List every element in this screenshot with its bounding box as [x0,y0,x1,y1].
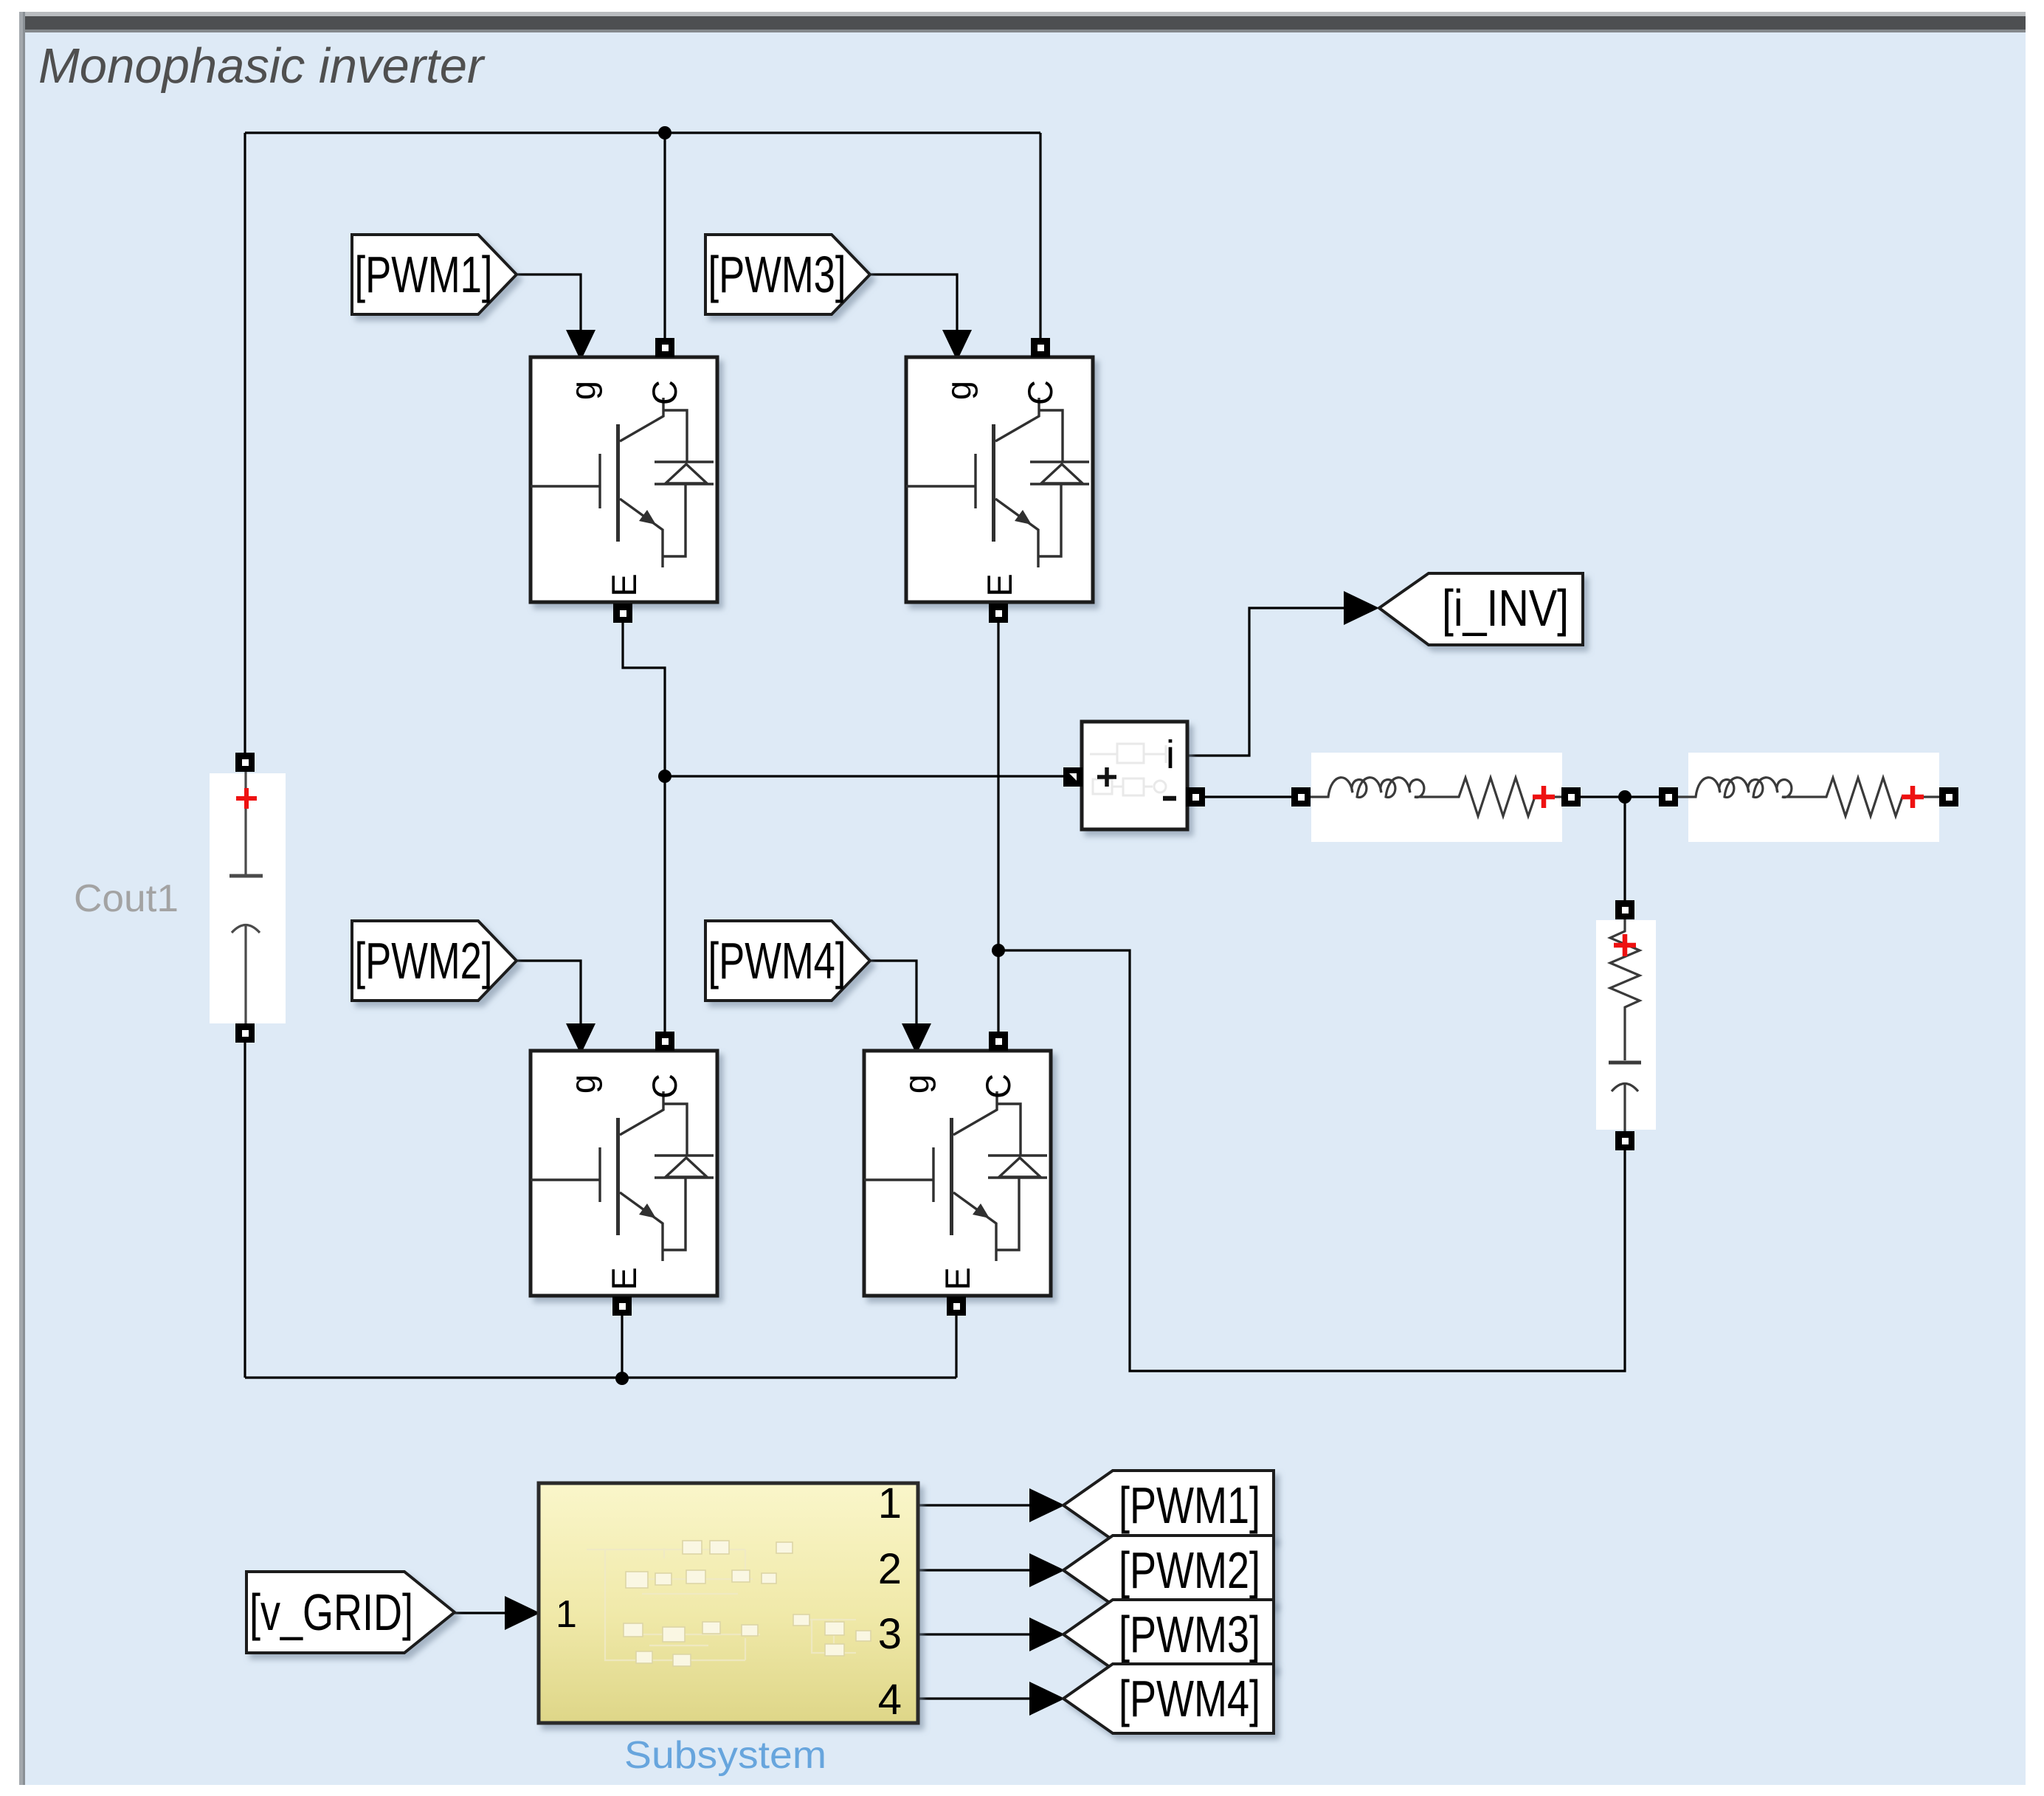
wire IGBT3 collector drop [1039,133,1041,339]
wire Cout1 bottom to bottom rail A [244,1041,246,1378]
wire IGBT2 emitter drop [621,1314,623,1378]
wire PWM1 gate [517,274,581,336]
wire Subsystem out3 [919,1633,1032,1635]
wire mid node to current sensor + [665,775,1065,777]
svg-text:Monophasic inverter: Monophasic inverter [38,38,486,94]
svg-text:[PWM2]: [PWM2] [355,932,493,989]
arrowhead into PWM2 goto [1029,1553,1065,1587]
Goto tag [PWM3] [1063,1600,1274,1669]
arrowhead into IGBT2 gate [566,1023,595,1054]
port RL1 right [1561,787,1581,807]
junction node RL1 / RL2 / RC branch [1618,790,1632,804]
wire current sensor - to RL1 [1205,795,1293,798]
port IGBT3 C [1031,338,1050,357]
Goto tag [PWM4] [1063,1664,1274,1733]
port Cout1 + [235,753,255,772]
port RL2 right [1939,787,1958,807]
wire Subsystem out1 [919,1504,1032,1506]
Goto tag [PWM1] [1063,1471,1274,1540]
svg-text:[PWM3]: [PWM3] [1119,1606,1260,1663]
arrowhead into i_INV tag [1344,591,1379,625]
port IGBT1 E [613,604,632,623]
svg-text:1: 1 [556,1593,577,1636]
wire IGBT4 emitter drop [955,1314,957,1378]
arrowhead into IGBT1 gate [566,330,595,361]
arrowhead into IGBT3 gate [942,330,972,361]
Goto tag [PWM2] [1063,1536,1274,1605]
RL branch 2 background strip [1688,753,1939,842]
arrowhead into PWM1 goto [1029,1488,1065,1522]
port IGBT4 E [947,1296,966,1316]
svg-text:[PWM1]: [PWM1] [1119,1476,1260,1534]
wire IGBT1 collector drop [663,133,666,339]
port IGBT3 E [989,604,1008,623]
svg-text:4: 4 [878,1676,902,1724]
wire bottom rail A [245,1376,956,1378]
series RL branch 1 (inductor + resistor) [1311,778,1563,816]
wire top DC+ rail [245,131,1040,134]
arrowhead into PWM4 goto [1029,1682,1065,1716]
svg-text:Subsystem: Subsystem [624,1734,826,1777]
series RL branch 2 (inductor + resistor) [1678,778,1939,816]
From tag [PWM4] [705,921,870,1001]
wire IGBT1 emitter to mid node [623,623,665,776]
current measurement block (i sensor) [1082,722,1187,829]
Subsystem block [539,1483,918,1723]
svg-text:1: 1 [878,1479,902,1527]
IGBT block IGBT1 (top-left) [531,357,717,602]
junction node top rail / IGBT1 C [658,126,671,139]
port IGBT2 C [655,1032,674,1051]
IGBT block IGBT4 (bottom-right) [864,1051,1051,1296]
svg-text:i: i [1166,733,1175,777]
port current sensor + [1063,767,1083,787]
port RC top [1615,900,1634,919]
svg-text:[PWM3]: [PWM3] [708,246,846,303]
capacitor Cout1 symbol [229,772,263,1025]
port Cout1 - [235,1023,255,1043]
port IGBT2 E [612,1296,632,1316]
port IGBT1 C [655,338,674,357]
svg-text:[i_INV]: [i_INV] [1442,579,1569,637]
current sensor - terminal label [1163,796,1176,801]
From tag [PWM3] [705,235,870,314]
wire PWM3 gate [871,274,957,336]
wire mid node down to IGBT2 collector [663,776,666,1033]
area title bar [19,12,2026,16]
wire PWM4 gate [871,961,916,1029]
From tag [v_GRID] [246,1572,455,1653]
junction node bottom rail A / IGBT2 E [615,1372,629,1385]
arrowhead into IGBT4 gate [902,1023,931,1054]
wire current sensor i output to i_INV [1187,608,1344,756]
svg-text:[PWM2]: [PWM2] [1119,1541,1260,1599]
junction node IGBT1 E / IGBT2 C mid [658,770,671,783]
svg-text:[v_GRID]: [v_GRID] [249,1583,413,1641]
port IGBT4 C [989,1032,1008,1051]
port RL2 left [1659,787,1678,807]
wire left DC+ vertical to Cout1 [244,133,246,753]
From tag [PWM1] [352,235,517,314]
port current sensor - [1186,787,1205,807]
port RC bottom [1615,1131,1634,1150]
wire PWM2 gate [517,961,581,1029]
IGBT block IGBT3 (top-right) [906,357,1093,602]
RL branch 1 background strip [1311,753,1562,842]
wire branch node down to RC top [1623,797,1626,902]
svg-text:Cout1: Cout1 [74,877,179,920]
junction node IGBT3 E / IGBT4 C mid [992,944,1005,957]
wire v_GRID to Subsystem [455,1612,508,1614]
svg-text:[PWM4]: [PWM4] [1119,1670,1260,1727]
wire Subsystem out2 [919,1569,1032,1571]
Goto tag [i_INV] [1379,573,1583,645]
series RC branch (vertical resistor + capacitor) [1609,919,1641,1131]
svg-text:3: 3 [878,1610,902,1658]
RC branch background strip [1596,920,1656,1130]
capacitor Cout1 background strip [210,773,286,1023]
svg-text:[PWM1]: [PWM1] [355,246,493,303]
svg-text:2: 2 [878,1545,902,1593]
From tag [PWM2] [352,921,517,1001]
wire Subsystem out4 [919,1697,1032,1699]
current sensor + terminal label [1097,767,1116,787]
IGBT block IGBT2 (bottom-left) [531,1051,717,1296]
svg-text:[PWM4]: [PWM4] [708,932,846,989]
arrowhead into PWM3 goto [1029,1617,1065,1651]
arrowhead into Subsystem input [505,1596,540,1630]
wire RL1 to RL2 with branch node [1581,795,1660,798]
area left border [19,12,23,1785]
port RL1 left [1291,787,1311,807]
wire IGBT3 emitter to IGBT4 collector [997,623,999,1033]
wire right mid node to bottom rail B [998,950,1625,1371]
